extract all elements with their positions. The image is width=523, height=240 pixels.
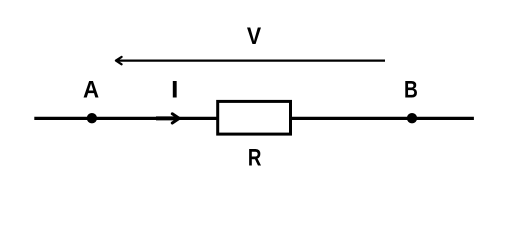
svg-text:R: R — [248, 144, 262, 171]
voltage arrow V — [116, 57, 385, 64]
svg-text:A: A — [83, 76, 99, 103]
resistor R — [218, 101, 291, 134]
current arrow I — [156, 114, 179, 123]
wire left segment A side — [34, 117, 217, 120]
svg-text:B: B — [404, 75, 418, 103]
node A — [87, 113, 97, 123]
svg-text:I: I — [171, 77, 178, 103]
node B — [407, 113, 417, 123]
wire right segment B side — [291, 117, 474, 120]
svg-text:V: V — [247, 22, 261, 49]
